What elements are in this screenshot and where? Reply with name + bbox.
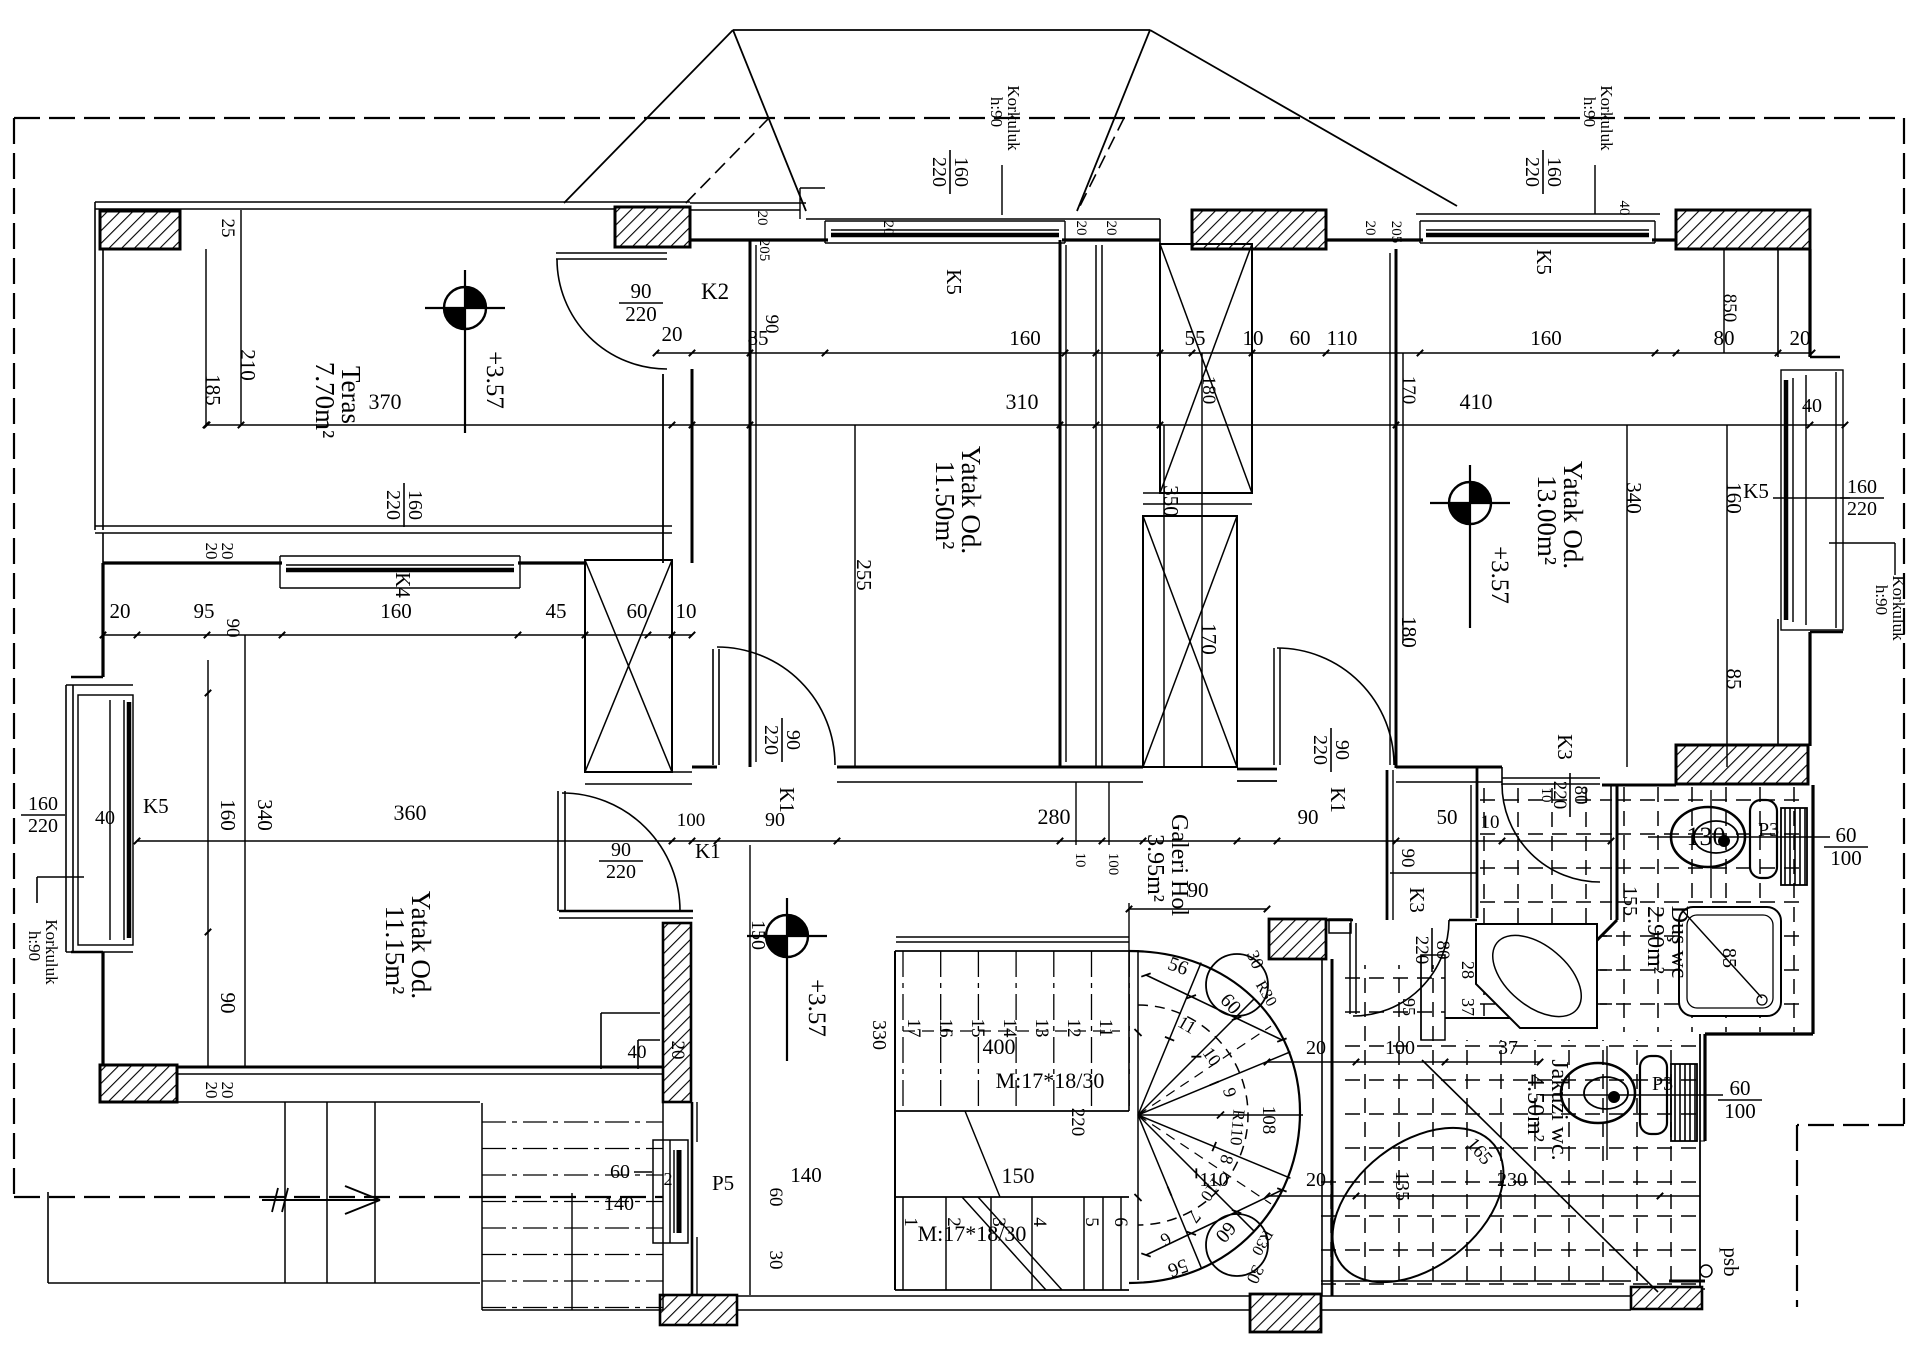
svg-text:55: 55 <box>1185 326 1206 350</box>
svg-text:280: 280 <box>1038 804 1071 829</box>
svg-text:40: 40 <box>628 1042 647 1063</box>
svg-text:+3.57: +3.57 <box>803 979 830 1037</box>
svg-text:10: 10 <box>676 599 697 623</box>
svg-text:160: 160 <box>950 157 972 187</box>
svg-text:60: 60 <box>627 599 648 623</box>
svg-text:10: 10 <box>1481 812 1500 833</box>
svg-text:150: 150 <box>747 920 769 950</box>
svg-text:2.90m²: 2.90m² <box>1642 906 1668 974</box>
svg-text:6: 6 <box>1110 1217 1131 1227</box>
svg-text:10: 10 <box>1538 788 1554 803</box>
svg-text:100: 100 <box>1830 846 1862 870</box>
svg-text:220: 220 <box>928 157 950 187</box>
svg-text:160: 160 <box>404 490 426 520</box>
svg-text:40: 40 <box>1616 201 1632 216</box>
svg-text:K2: K2 <box>701 279 729 304</box>
svg-text:80: 80 <box>1570 786 1591 805</box>
svg-text:185: 185 <box>201 374 225 406</box>
svg-text:220: 220 <box>1847 498 1877 520</box>
svg-text:30: 30 <box>765 1251 786 1270</box>
svg-text:135: 135 <box>1391 1171 1413 1201</box>
svg-text:h:90: h:90 <box>1580 97 1599 127</box>
svg-text:11.15m²: 11.15m² <box>380 906 410 995</box>
svg-text:150: 150 <box>1002 1163 1035 1188</box>
svg-text:20: 20 <box>218 543 237 560</box>
svg-text:170: 170 <box>1398 376 1419 405</box>
svg-text:205: 205 <box>756 239 772 262</box>
svg-text:220: 220 <box>606 861 636 883</box>
svg-text:90: 90 <box>782 730 804 750</box>
svg-text:90: 90 <box>1331 740 1353 760</box>
svg-text:90: 90 <box>611 839 631 861</box>
svg-text:15: 15 <box>967 1019 988 1038</box>
svg-text:45: 45 <box>546 599 567 623</box>
svg-text:13: 13 <box>1031 1019 1052 1038</box>
svg-text:100: 100 <box>677 810 706 831</box>
svg-text:20: 20 <box>754 211 770 226</box>
svg-text:12: 12 <box>1063 1019 1084 1038</box>
svg-text:20: 20 <box>110 599 131 623</box>
svg-text:220: 220 <box>1067 1108 1088 1137</box>
svg-text:K5: K5 <box>942 269 966 295</box>
svg-text:K1: K1 <box>775 787 799 813</box>
svg-text:220: 220 <box>625 302 657 326</box>
svg-text:K1: K1 <box>1326 787 1350 813</box>
svg-text:psb: psb <box>1719 1247 1743 1276</box>
svg-text:2: 2 <box>664 1169 673 1189</box>
svg-text:220: 220 <box>28 815 58 837</box>
svg-text:100: 100 <box>1724 1099 1756 1123</box>
svg-text:90: 90 <box>761 315 782 334</box>
svg-text:100: 100 <box>1385 1037 1415 1059</box>
svg-text:20: 20 <box>1306 1037 1326 1059</box>
svg-text:37: 37 <box>1458 998 1478 1016</box>
svg-text:P3: P3 <box>1652 1073 1673 1095</box>
svg-text:170: 170 <box>1197 623 1221 655</box>
svg-text:37: 37 <box>1498 1037 1518 1059</box>
svg-text:95: 95 <box>1399 998 1419 1016</box>
svg-text:K5: K5 <box>1532 249 1556 275</box>
svg-text:110: 110 <box>1327 326 1358 350</box>
svg-text:5: 5 <box>1081 1217 1102 1227</box>
svg-text:K3: K3 <box>1553 734 1577 760</box>
svg-text:K3: K3 <box>1405 887 1429 913</box>
svg-text:K1: K1 <box>695 839 721 863</box>
svg-text:95: 95 <box>194 599 215 623</box>
svg-text:Jakuzi wc.: Jakuzi wc. <box>1546 1059 1572 1160</box>
svg-text:20: 20 <box>1790 326 1811 350</box>
svg-text:h:90: h:90 <box>1872 585 1891 615</box>
svg-text:230: 230 <box>1497 1169 1527 1191</box>
svg-text:40: 40 <box>95 807 115 829</box>
svg-text:14: 14 <box>999 1019 1020 1039</box>
svg-text:7.70m²: 7.70m² <box>310 362 340 438</box>
svg-text:60: 60 <box>1290 326 1311 350</box>
svg-text:160: 160 <box>1530 326 1562 350</box>
svg-text:410: 410 <box>1460 389 1493 414</box>
svg-text:220: 220 <box>1521 157 1543 187</box>
svg-text:90: 90 <box>631 279 652 303</box>
svg-text:360: 360 <box>394 800 427 825</box>
svg-text:50: 50 <box>1437 805 1458 829</box>
svg-text:85: 85 <box>1718 948 1740 968</box>
svg-text:K5: K5 <box>1743 479 1769 503</box>
svg-text:20: 20 <box>662 322 683 346</box>
svg-text:1: 1 <box>900 1217 921 1227</box>
svg-text:K4: K4 <box>391 572 415 598</box>
svg-text:4: 4 <box>1029 1217 1050 1227</box>
svg-text:220: 220 <box>760 725 782 755</box>
svg-text:180: 180 <box>1198 376 1219 405</box>
svg-text:10: 10 <box>1243 326 1264 350</box>
svg-text:3: 3 <box>988 1217 1009 1227</box>
svg-text:2: 2 <box>943 1217 964 1227</box>
svg-text:60: 60 <box>610 1161 630 1183</box>
svg-text:220: 220 <box>382 490 404 520</box>
svg-text:310: 310 <box>1006 389 1039 414</box>
svg-text:90: 90 <box>222 619 243 638</box>
svg-text:130: 130 <box>1687 822 1726 851</box>
svg-text:20: 20 <box>1103 221 1119 236</box>
svg-text:20: 20 <box>1073 221 1089 236</box>
svg-text:13.00m²: 13.00m² <box>1532 475 1562 565</box>
svg-text:220: 220 <box>1309 735 1331 765</box>
svg-text:160: 160 <box>1009 326 1041 350</box>
svg-text:R110: R110 <box>1226 1109 1248 1147</box>
svg-text:P5: P5 <box>712 1171 734 1195</box>
svg-text:140: 140 <box>604 1193 634 1215</box>
svg-text:Duş wc: Duş wc <box>1666 906 1692 979</box>
svg-text:20: 20 <box>218 1082 237 1099</box>
svg-text:40: 40 <box>1802 395 1822 417</box>
svg-text:340: 340 <box>1622 482 1646 514</box>
svg-text:340: 340 <box>253 799 277 831</box>
svg-text:160: 160 <box>380 599 412 623</box>
svg-text:160: 160 <box>28 793 58 815</box>
svg-text:60: 60 <box>1730 1076 1751 1100</box>
svg-text:90: 90 <box>216 993 240 1014</box>
svg-text:205: 205 <box>1388 221 1404 244</box>
svg-text:28: 28 <box>1458 961 1478 979</box>
svg-text:180: 180 <box>1397 616 1421 648</box>
svg-text:10: 10 <box>1072 853 1088 868</box>
svg-text:+3.57: +3.57 <box>1486 546 1513 604</box>
svg-text:850: 850 <box>1719 294 1740 323</box>
svg-text:h:90: h:90 <box>987 97 1006 127</box>
svg-text:20: 20 <box>880 221 896 236</box>
svg-text:25: 25 <box>217 219 238 238</box>
svg-text:P3: P3 <box>1758 819 1779 841</box>
svg-text:20: 20 <box>1306 1169 1326 1191</box>
svg-text:11.50m²: 11.50m² <box>930 461 960 550</box>
svg-text:350: 350 <box>1159 485 1183 517</box>
svg-text:M:17*18/30: M:17*18/30 <box>996 1068 1105 1093</box>
svg-text:108: 108 <box>1258 1106 1279 1135</box>
svg-text:160: 160 <box>1543 157 1565 187</box>
svg-text:60: 60 <box>765 1188 786 1207</box>
svg-text:210: 210 <box>236 349 260 381</box>
svg-text:4.50m²: 4.50m² <box>1522 1074 1548 1142</box>
svg-text:11: 11 <box>1095 1019 1116 1037</box>
svg-text:Galeri Hol: Galeri Hol <box>1166 814 1192 916</box>
svg-text:20: 20 <box>1362 221 1378 236</box>
svg-text:K5: K5 <box>143 794 169 818</box>
svg-text:20: 20 <box>667 1041 688 1060</box>
svg-text:160: 160 <box>1847 476 1877 498</box>
svg-text:140: 140 <box>790 1163 822 1187</box>
svg-text:17: 17 <box>903 1019 924 1038</box>
svg-text:255: 255 <box>852 559 876 591</box>
svg-text:90: 90 <box>1397 849 1418 868</box>
svg-text:370: 370 <box>369 389 402 414</box>
svg-text:155: 155 <box>1619 886 1641 916</box>
svg-text:h:90: h:90 <box>25 931 44 961</box>
svg-text:60: 60 <box>1836 823 1857 847</box>
svg-text:90: 90 <box>1298 805 1319 829</box>
svg-text:16: 16 <box>935 1019 956 1038</box>
svg-text:M:17*18/30: M:17*18/30 <box>918 1221 1027 1246</box>
svg-text:85: 85 <box>1722 669 1746 690</box>
svg-text:330: 330 <box>868 1020 890 1050</box>
svg-text:400: 400 <box>983 1034 1016 1059</box>
svg-text:3.95m²: 3.95m² <box>1142 834 1168 902</box>
svg-text:100: 100 <box>1105 853 1121 876</box>
svg-text:+3.57: +3.57 <box>481 351 508 409</box>
svg-text:160: 160 <box>216 799 240 831</box>
